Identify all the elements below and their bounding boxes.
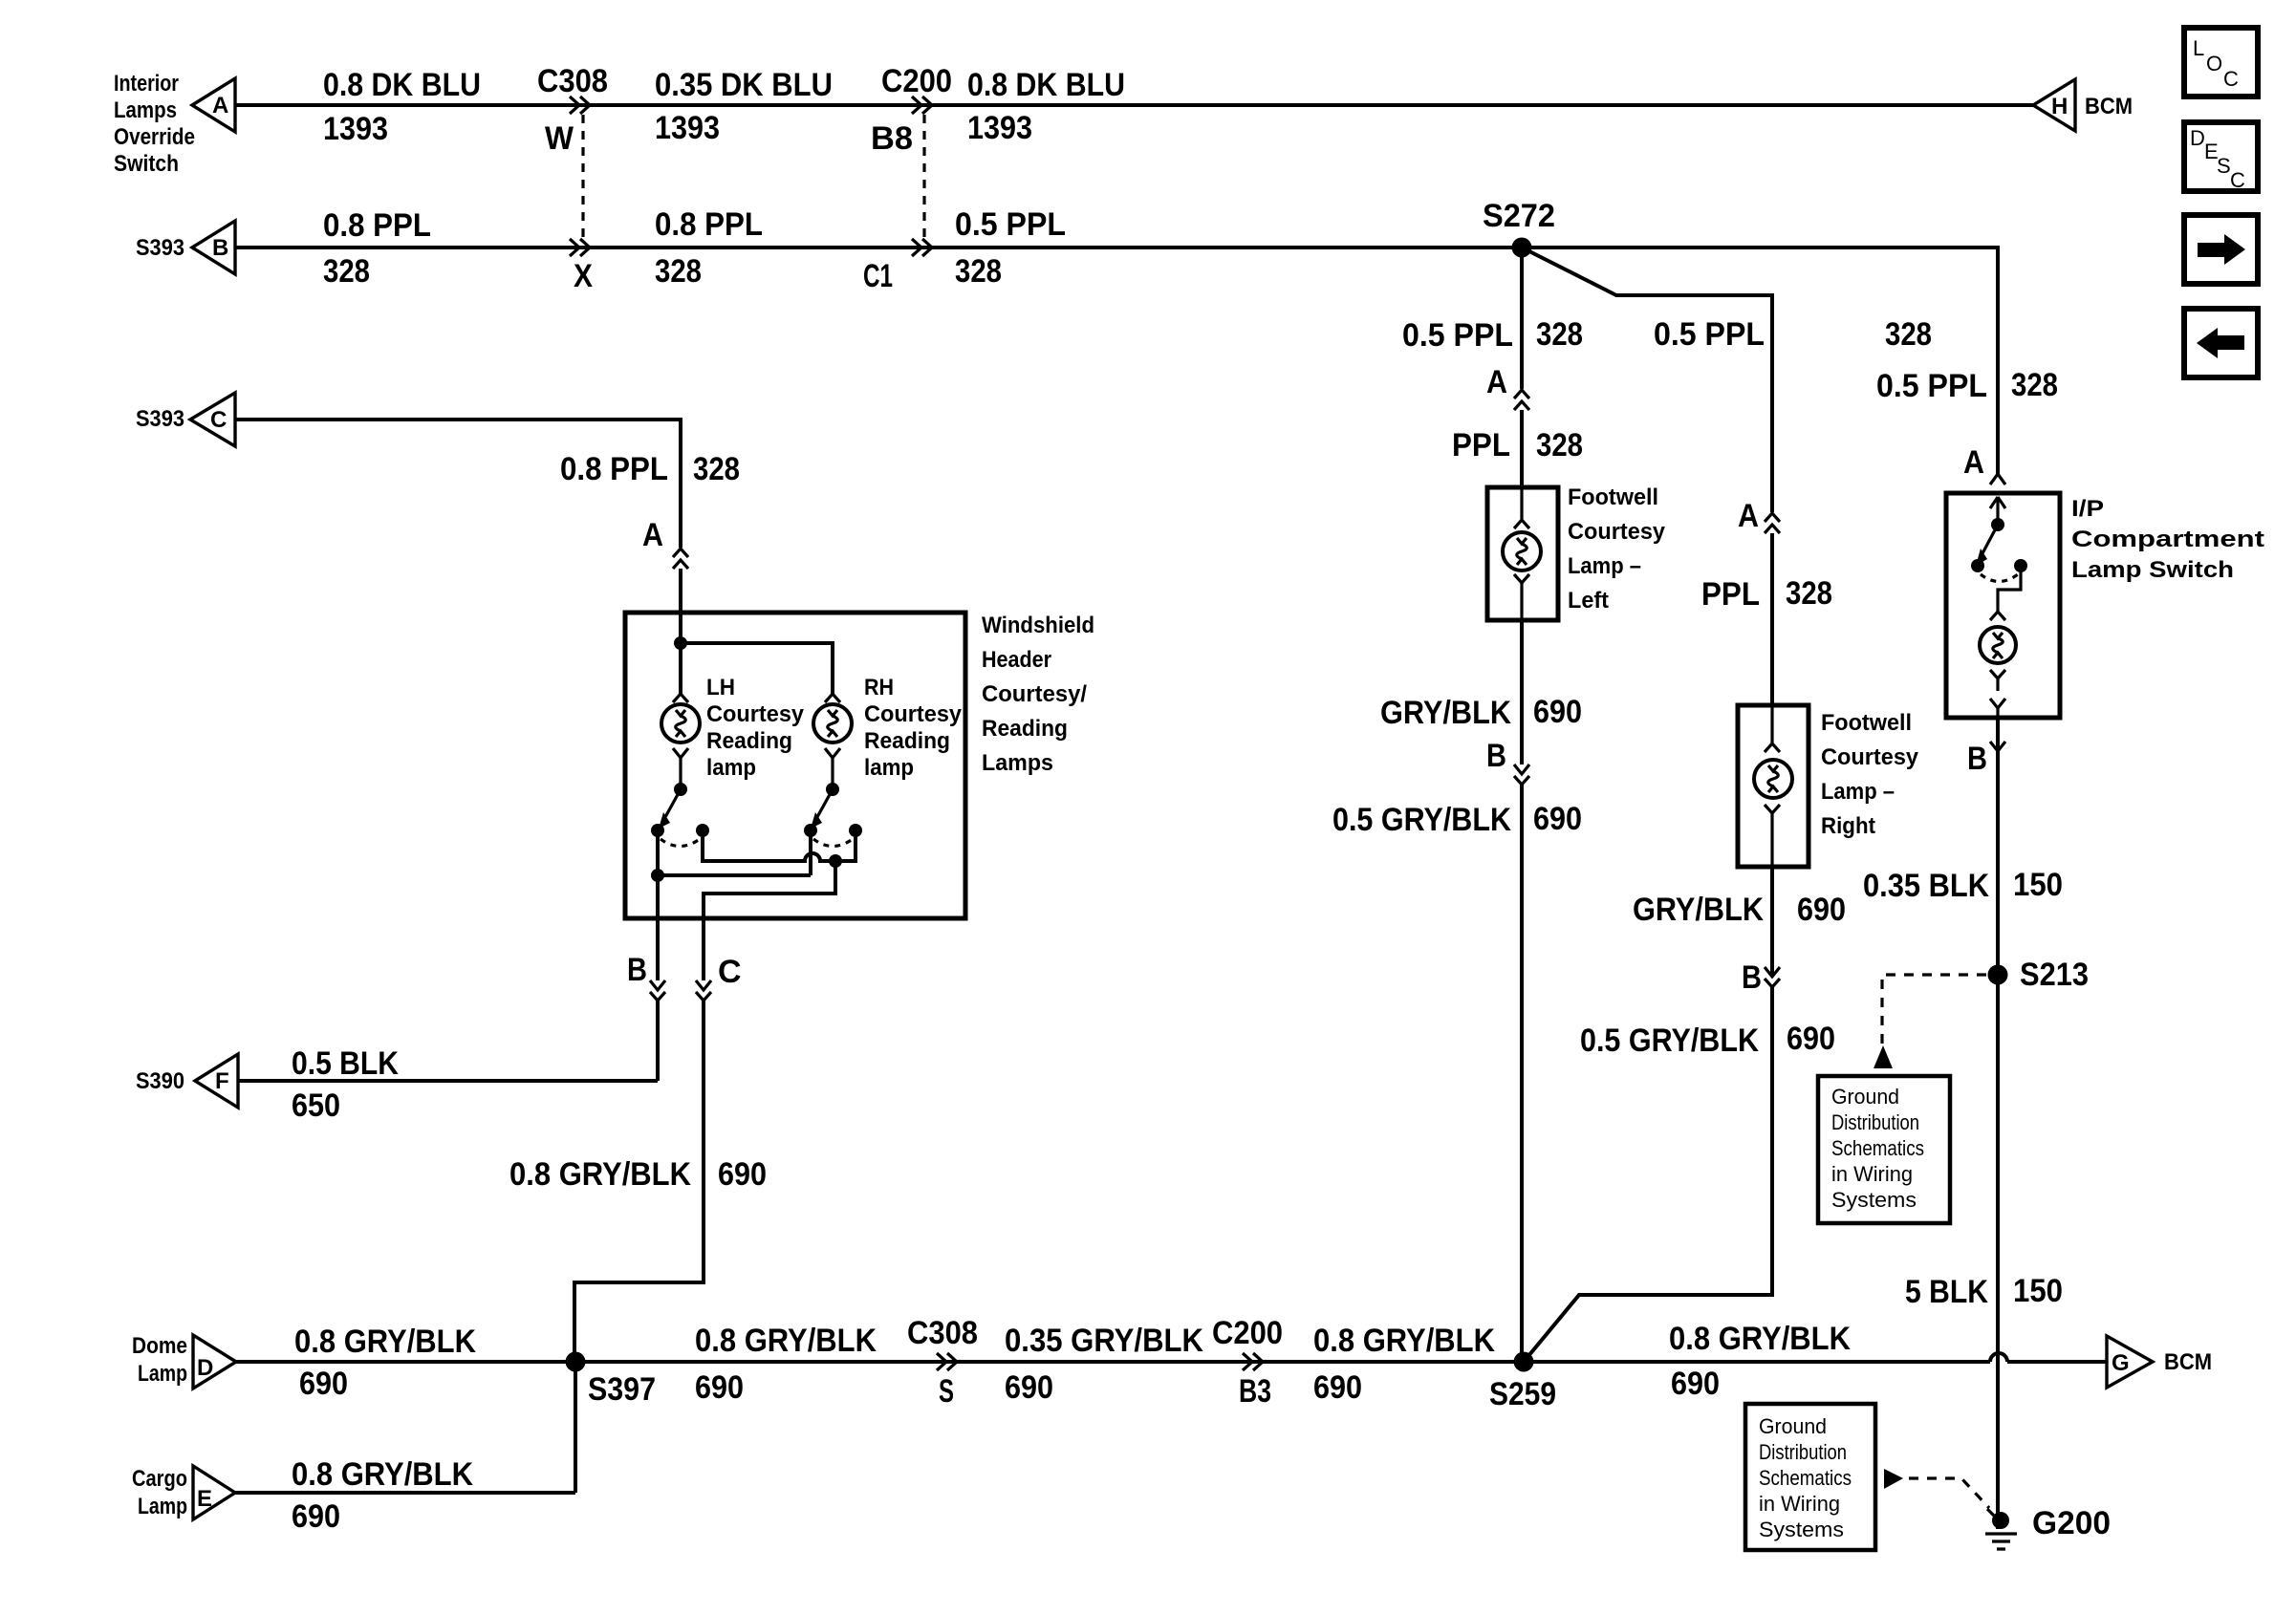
svg-text:BCM: BCM <box>2164 1349 2212 1375</box>
RH lamp switch <box>804 783 862 847</box>
svg-text:B: B <box>1486 738 1506 774</box>
I/P lamp switch contacts and arm <box>1971 518 2027 582</box>
svg-text:C: C <box>2223 67 2239 91</box>
svg-text:A: A <box>1963 444 1984 481</box>
svg-text:Courtesy: Courtesy <box>706 701 805 727</box>
svg-text:150: 150 <box>2013 867 2063 903</box>
svg-text:C200: C200 <box>1212 1315 1283 1351</box>
svg-text:lamp: lamp <box>706 755 756 781</box>
svg-text:650: 650 <box>292 1087 340 1124</box>
value label 5 BLK 150 <box>1905 1273 2063 1310</box>
svg-text:Schematics: Schematics <box>1759 1466 1852 1490</box>
svg-text:S: S <box>2217 154 2231 178</box>
value label 0.5 PPL 328 (S272 to footwell left) <box>1402 316 1583 354</box>
wire from S272 down to Footwell Courtesy Lamp Left <box>1520 248 1524 389</box>
windshield inner feed rail and junction <box>674 613 833 694</box>
left arrow navigation box <box>2184 309 2258 377</box>
value label GRY/BLK 690 <box>1380 694 1582 731</box>
svg-text:B8: B8 <box>871 120 913 157</box>
svg-text:B: B <box>1742 959 1762 996</box>
svg-text:G200: G200 <box>2032 1505 2111 1541</box>
DESC navigation box <box>2184 122 2258 192</box>
svg-text:S213: S213 <box>2020 957 2089 993</box>
value label PPL 328 (footwell right) <box>1701 575 1832 613</box>
value label 0.8 GRY/BLK 690 (segment 2) <box>695 1323 877 1406</box>
svg-text:0.5 PPL: 0.5 PPL <box>1876 368 1987 404</box>
svg-text:BCM: BCM <box>2085 94 2133 119</box>
splice S259 <box>1489 1352 1556 1413</box>
svg-text:0.8 GRY/BLK: 0.8 GRY/BLK <box>1313 1323 1495 1359</box>
svg-text:in Wiring: in Wiring <box>1759 1492 1840 1516</box>
svg-text:Systems: Systems <box>1759 1518 1844 1541</box>
svg-text:Courtesy: Courtesy <box>1821 744 1919 770</box>
svg-text:Distribution: Distribution <box>1831 1110 1919 1134</box>
svg-text:690: 690 <box>1787 1021 1835 1057</box>
wire I/P B down to G200 <box>1996 718 2000 1529</box>
svg-text:C308: C308 <box>537 63 608 99</box>
wire windshield C output down to S397 <box>574 918 704 1362</box>
svg-text:0.5 PPL: 0.5 PPL <box>955 206 1066 243</box>
Ground Distribution Schematics note box (lower) <box>1745 1404 1875 1550</box>
wire row E: cargo lamp to S397 <box>235 1491 575 1495</box>
svg-text:D: D <box>197 1355 213 1381</box>
LH lamp switch <box>651 783 709 847</box>
svg-text:Footwell: Footwell <box>1568 484 1658 510</box>
value label 0.8 GRY/BLK 690 (segment 5) <box>1669 1321 1851 1402</box>
svg-text:0.5 PPL: 0.5 PPL <box>1402 317 1513 354</box>
svg-text:Windshield: Windshield <box>982 613 1094 638</box>
svg-text:0.8 GRY/BLK: 0.8 GRY/BLK <box>294 1324 476 1360</box>
svg-text:1393: 1393 <box>655 110 720 146</box>
connector C308 pin W chevrons on row A <box>570 97 590 114</box>
svg-text:H: H <box>2051 94 2068 119</box>
svg-text:S390: S390 <box>136 1068 184 1094</box>
svg-text:LH: LH <box>706 675 735 700</box>
svg-text:G: G <box>2112 1350 2130 1376</box>
svg-text:0.5 GRY/BLK: 0.5 GRY/BLK <box>1580 1023 1759 1059</box>
connector C308 pin S chevrons on row G <box>937 1353 957 1370</box>
footwell right lamp internals <box>1754 705 1792 867</box>
svg-text:Lamps: Lamps <box>114 97 177 123</box>
svg-text:1393: 1393 <box>967 110 1032 146</box>
svg-text:0.8 DK BLU: 0.8 DK BLU <box>967 67 1125 103</box>
in-line connector chevrons A (windshield) <box>673 549 688 569</box>
svg-text:A: A <box>1738 498 1759 534</box>
svg-text:C308: C308 <box>907 1315 978 1351</box>
Ground Distribution Schematics note box (upper) <box>1818 1076 1950 1223</box>
svg-text:D: D <box>2190 126 2205 150</box>
svg-text:Left: Left <box>1568 588 1609 614</box>
svg-text:C1: C1 <box>863 258 893 294</box>
svg-text:S259: S259 <box>1489 1376 1556 1412</box>
reference arrowhead and dashed line (to G200) <box>1884 1469 1903 1489</box>
svg-text:0.8 DK BLU: 0.8 DK BLU <box>323 67 481 103</box>
svg-text:Systems: Systems <box>1831 1188 1917 1212</box>
svg-text:150: 150 <box>2013 1273 2063 1309</box>
svg-text:690: 690 <box>292 1498 340 1535</box>
in-line connector chevrons A (footwell left) <box>1514 390 1529 410</box>
svg-text:Courtesy: Courtesy <box>1568 519 1666 545</box>
svg-text:C: C <box>718 954 742 990</box>
svg-text:Schematics: Schematics <box>1831 1136 1924 1160</box>
svg-text:F: F <box>215 1068 229 1094</box>
svg-text:Lamp –: Lamp – <box>1821 779 1895 805</box>
svg-text:Courtesy/: Courtesy/ <box>982 681 1087 707</box>
connector triangle G to BCM <box>2107 1336 2153 1388</box>
svg-text:GRY/BLK: GRY/BLK <box>1380 695 1511 731</box>
value label 0.8 GRY/BLK 690 (cargo) <box>292 1456 473 1535</box>
value label PPL 328 <box>1452 427 1583 463</box>
in-line connector chevrons A (footwell right) <box>1765 513 1780 533</box>
svg-text:0.8 PPL: 0.8 PPL <box>323 207 431 244</box>
wire S272 diagonal branch to footwell right <box>1522 248 1772 512</box>
svg-text:lamp: lamp <box>864 755 914 781</box>
wire row A: 0.8 DK BLU 1393 from switch A to BCM H <box>235 103 2033 107</box>
svg-text:B: B <box>212 235 228 261</box>
svg-text:0.5 GRY/BLK: 0.5 GRY/BLK <box>1332 802 1511 838</box>
svg-text:Dome: Dome <box>132 1333 187 1359</box>
reference arrowhead (to S213 note) <box>1874 1045 1893 1068</box>
value label 0.5 PPL 328 (S272 to footwell right) <box>1654 316 1932 353</box>
svg-text:690: 690 <box>1671 1366 1720 1402</box>
wire row F: 0.5 BLK 650 <box>238 1079 658 1083</box>
svg-text:0.35 DK BLU: 0.35 DK BLU <box>655 67 833 103</box>
svg-text:690: 690 <box>1005 1369 1053 1406</box>
svg-text:0.8 GRY/BLK: 0.8 GRY/BLK <box>695 1323 877 1359</box>
svg-text:A: A <box>212 93 228 118</box>
I/P lamp lower pin chevrons and wire <box>1990 670 2005 718</box>
wire row G: GRY/BLK 690 dome lamp to BCM G <box>236 1360 2107 1364</box>
value label 0.35 GRY/BLK 690 (segment 3) <box>1005 1323 1203 1406</box>
svg-text:0.8 GRY/BLK: 0.8 GRY/BLK <box>509 1156 691 1193</box>
svg-text:Compartment: Compartment <box>2071 527 2264 552</box>
svg-text:B3: B3 <box>1239 1373 1271 1410</box>
label Windshield Header Courtesy/Reading Lamps <box>982 613 1094 776</box>
svg-text:328: 328 <box>1536 316 1583 353</box>
wire footwell left B down to S259 <box>1520 620 1524 1362</box>
svg-text:S397: S397 <box>588 1371 656 1408</box>
I/P pin A arrow inside box <box>1990 497 2005 525</box>
connector C200 pin B8 chevrons on row A <box>912 97 932 114</box>
svg-text:L: L <box>2193 36 2204 60</box>
splice S272 <box>1483 198 1555 258</box>
svg-text:Switch: Switch <box>114 151 179 177</box>
in-line connector chevrons B (footwell left) <box>1514 764 1529 785</box>
svg-text:328: 328 <box>655 253 702 290</box>
I/P compartment lamp <box>1980 627 2016 663</box>
svg-text:690: 690 <box>695 1369 744 1406</box>
svg-text:690: 690 <box>299 1366 348 1402</box>
label Cargo Lamp <box>132 1466 187 1519</box>
svg-text:1393: 1393 <box>323 111 388 147</box>
svg-text:328: 328 <box>323 253 370 290</box>
connector chevron below I/P box <box>1990 742 2005 751</box>
svg-text:0.8 PPL: 0.8 PPL <box>655 206 763 243</box>
svg-text:Reading: Reading <box>706 728 792 754</box>
wire windshield B output down to S390 F <box>656 875 660 1081</box>
svg-text:Lamp Switch: Lamp Switch <box>2071 557 2234 583</box>
svg-text:690: 690 <box>1533 801 1582 837</box>
connector C308 dashed tie line <box>581 115 584 241</box>
value label 0.35 BLK 150 <box>1863 867 2063 904</box>
wire into footwell right lamp <box>1770 533 1774 705</box>
value label GRY/BLK 690 (footwell right) <box>1633 892 1846 928</box>
wire hop over I/P ground wire <box>1990 1353 2007 1362</box>
svg-text:A: A <box>1486 364 1507 400</box>
connector C308 pin X chevrons on row B <box>570 239 590 256</box>
svg-text:328: 328 <box>693 451 740 487</box>
value label 0.8 GRY/BLK 690 (segment 1) <box>294 1324 476 1402</box>
svg-text:690: 690 <box>718 1156 767 1193</box>
in-line connector chevrons B (footwell right) <box>1765 967 1780 987</box>
value label 0.5 GRY/BLK 690 <box>1332 801 1582 838</box>
svg-text:328: 328 <box>1786 575 1832 612</box>
wire footwell right B down to S259 <box>1524 867 1772 1362</box>
Windshield Header Courtesy/Reading Lamps box <box>625 613 965 918</box>
svg-text:Interior: Interior <box>114 71 179 97</box>
RH courtesy reading lamp <box>813 694 852 789</box>
svg-text:B: B <box>627 952 647 988</box>
svg-text:0.8 GRY/BLK: 0.8 GRY/BLK <box>292 1456 473 1493</box>
value label 0.5 GRY/BLK 690 (footwell right) <box>1580 1021 1835 1059</box>
connector triangle F to S390 <box>195 1054 238 1108</box>
windshield inner ground wiring <box>651 830 856 918</box>
value label 0.8 DK BLU 1393 (segment 3) <box>967 67 1125 146</box>
svg-text:0.5 PPL: 0.5 PPL <box>1654 316 1765 353</box>
svg-text:328: 328 <box>2011 367 2058 403</box>
value label 0.8 DK BLU 1393 (segment 1) <box>323 67 481 147</box>
svg-text:Header: Header <box>982 647 1051 673</box>
wire into footwell left lamp <box>1520 410 1524 487</box>
right arrow navigation box <box>2184 215 2258 284</box>
svg-text:Reading: Reading <box>982 716 1068 742</box>
label RH Courtesy Reading lamp <box>864 675 963 781</box>
svg-text:Override: Override <box>114 124 195 150</box>
svg-text:690: 690 <box>1313 1369 1362 1406</box>
Footwell Courtesy Lamp Left box <box>1487 487 1558 620</box>
value label 0.8 GRY/BLK 690 (C to S397) <box>509 1156 767 1193</box>
LOC navigation box <box>2184 28 2258 97</box>
value label 0.8 GRY/BLK 690 (segment 4) <box>1313 1323 1495 1406</box>
value label 0.8 PPL 328 (windshield feed) <box>560 451 740 487</box>
svg-text:S393: S393 <box>136 406 184 432</box>
label Footwell Courtesy Lamp Left <box>1568 484 1666 614</box>
svg-text:O: O <box>2206 52 2222 75</box>
svg-text:GRY/BLK: GRY/BLK <box>1633 892 1764 928</box>
label Interior Lamps Override Switch <box>114 71 195 177</box>
I/P Compartment Lamp Switch box <box>1946 493 2060 718</box>
connector Y split at I/P pin A <box>1990 474 2005 484</box>
svg-text:S: S <box>939 1373 954 1410</box>
connector triangle B from S393 <box>192 221 235 274</box>
ground G200 <box>1985 1505 2111 1549</box>
in-line connector chevrons C (windshield) <box>696 980 711 1001</box>
svg-text:328: 328 <box>955 253 1002 290</box>
Footwell Courtesy Lamp Right box <box>1738 705 1809 867</box>
svg-text:0.8 PPL: 0.8 PPL <box>560 451 668 487</box>
wire I/P switch contact to lamp <box>1998 566 2021 612</box>
svg-text:Reading: Reading <box>864 728 950 754</box>
svg-text:328: 328 <box>1885 316 1932 353</box>
svg-text:C200: C200 <box>881 63 952 99</box>
svg-text:S393: S393 <box>136 235 184 261</box>
value label 0.8 PPL 328 (segment 2) <box>655 206 763 290</box>
connector triangle E from Cargo Lamp <box>193 1466 235 1519</box>
connector triangle H to BCM <box>2033 79 2075 131</box>
label I/P Compartment Lamp Switch <box>2071 496 2264 583</box>
svg-text:RH: RH <box>864 675 894 700</box>
value label 0.5 PPL 328 (segment 3) <box>955 206 1066 290</box>
label Dome Lamp <box>132 1333 187 1387</box>
wire row B: PPL 328 from S393 B to I/P compartment lamp switch <box>235 248 1998 474</box>
connector C200 dashed tie line <box>922 115 925 241</box>
svg-text:Ground: Ground <box>1759 1414 1827 1438</box>
value label 0.8 PPL 328 (segment 1) <box>323 207 431 290</box>
svg-text:A: A <box>642 517 663 553</box>
footwell left lamp internals <box>1503 487 1541 620</box>
connector C200 pin B3 chevrons on row G <box>1243 1353 1263 1370</box>
wire from S393 C to windshield header lamps <box>235 420 681 548</box>
splice S213 <box>1988 957 2090 993</box>
svg-text:Ground: Ground <box>1831 1085 1899 1109</box>
value label 0.5 PPL 328 (row B to I/P switch) <box>1876 367 2058 404</box>
svg-text:PPL: PPL <box>1452 427 1510 463</box>
svg-text:0.5 BLK: 0.5 BLK <box>292 1045 399 1082</box>
svg-text:X: X <box>574 258 593 294</box>
svg-text:in Wiring: in Wiring <box>1831 1162 1913 1186</box>
svg-text:0.35 GRY/BLK: 0.35 GRY/BLK <box>1005 1323 1203 1359</box>
svg-text:Lamp: Lamp <box>138 1361 187 1387</box>
svg-text:C: C <box>210 407 227 433</box>
wire S397 down leg to cargo lamp wire <box>574 1362 577 1493</box>
svg-text:C: C <box>2230 168 2245 192</box>
svg-text:I/P: I/P <box>2071 496 2104 522</box>
label LH Courtesy Reading lamp <box>706 675 805 781</box>
svg-text:690: 690 <box>1533 694 1582 730</box>
svg-text:Footwell: Footwell <box>1821 710 1912 736</box>
connector C200 pin C1 chevrons on row B <box>912 239 932 256</box>
LH courtesy reading lamp <box>661 694 700 789</box>
svg-text:PPL: PPL <box>1701 576 1760 613</box>
splice S397 <box>566 1352 657 1409</box>
connector triangle A (Interior Lamps Override Switch) <box>192 78 235 132</box>
svg-text:Distribution: Distribution <box>1759 1440 1847 1464</box>
value label 0.5 BLK 650 <box>292 1045 399 1124</box>
svg-text:Cargo: Cargo <box>132 1466 187 1492</box>
in-line connector chevrons B (windshield) <box>650 980 665 1001</box>
svg-text:0.35 BLK: 0.35 BLK <box>1863 868 1989 904</box>
svg-text:5 BLK: 5 BLK <box>1905 1274 1988 1310</box>
svg-text:690: 690 <box>1797 892 1846 928</box>
wire into windshield header box <box>679 569 682 613</box>
svg-text:Lamp: Lamp <box>138 1494 187 1519</box>
I/P lamp pin chevron <box>1990 612 2005 620</box>
value label 0.35 DK BLU 1393 (segment 2) <box>655 67 833 146</box>
connector triangle D from Dome Lamp <box>193 1335 236 1389</box>
svg-text:0.8 GRY/BLK: 0.8 GRY/BLK <box>1669 1321 1851 1357</box>
label Footwell Courtesy Lamp Right <box>1821 710 1919 839</box>
svg-text:S272: S272 <box>1483 198 1555 234</box>
dashed reference line from S213 to ground note <box>1882 975 1986 1044</box>
svg-text:328: 328 <box>1536 427 1583 463</box>
svg-text:B: B <box>1967 741 1987 777</box>
svg-text:E: E <box>197 1486 212 1512</box>
svg-text:Right: Right <box>1821 813 1875 839</box>
svg-text:Lamp –: Lamp – <box>1568 553 1641 579</box>
svg-text:Lamps: Lamps <box>982 750 1053 776</box>
svg-text:Courtesy: Courtesy <box>864 701 963 727</box>
connector triangle C from S393 <box>190 393 235 446</box>
svg-text:W: W <box>545 120 574 157</box>
